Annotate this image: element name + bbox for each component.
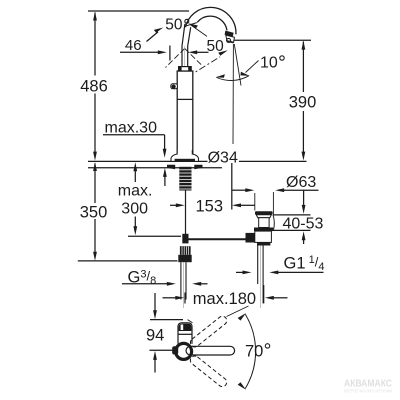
G3/8 left arrow right-pointing [167,282,176,286]
faucet vertical centerline [184,46,186,160]
10 deg angle arc [216,76,249,81]
10 deg arc arrow left [216,74,225,78]
dimension 350 line lower [94,219,96,256]
pop-up rod end knob [246,233,255,243]
pop-up waste body [255,231,272,242]
deck section right end cap [273,215,274,231]
40-53 lower arrow tail [303,239,305,244]
supply hose right line [185,262,187,299]
top view body cylinder [178,323,192,344]
leader line from joint to second 50 label [191,25,208,37]
94 top reference line [150,319,183,321]
dashed swivel arm lower [189,354,229,388]
G3/8 right arrow left-pointing [192,282,201,286]
swivel spout arm bar [186,346,235,355]
svg-text:max.180: max.180 [193,290,256,308]
degree circle of first 50 [185,19,189,23]
94 bottom reference line [150,349,176,351]
dimension 153 left arrow right-pointing [176,203,185,207]
svg-text:40-53: 40-53 [283,216,324,233]
dimension 153 right arrow left-pointing [232,203,241,207]
svg-text:350: 350 [80,203,108,221]
max.180 leader to swivel arm [227,306,249,317]
max.180 right tail [273,297,288,299]
watermark [344,379,392,394]
svg-text:46: 46 [125,37,142,54]
dimension 46 extension line [169,46,171,61]
dimension 350 line upper [94,164,96,204]
dimension max.300 upper arrow up [133,162,137,171]
handle axis arrow tip [218,50,228,55]
spout outer arc [185,7,236,34]
O63 right extension line [272,192,274,215]
max.180 left extension line [184,293,186,304]
dimension max.300 line upper [134,166,136,182]
dimension 350 arrow up [93,162,97,171]
leader arrow pointing at joint [188,23,198,28]
dimension max.180 left tail [163,297,177,299]
dimension max.300 line lower [134,217,136,231]
max.30 lower arrow tail [164,176,166,186]
max.300 bottom reference line [128,235,181,237]
svg-text:300: 300 [121,201,148,218]
max.180 right extension line [263,285,265,303]
70 deg arc arrow top [238,313,246,321]
40-53 arrow down [302,205,306,214]
spout inner arc [197,16,227,30]
leader line for 10 deg [246,61,259,73]
supply hose left line [180,262,182,299]
supply hose braid stripes [182,246,189,255]
degree circle of second 50 [227,38,231,42]
350 bottom reference line [78,260,178,262]
supply hose connector nut [178,255,191,262]
svg-text:94: 94 [146,327,164,345]
dimension 153 left tail [170,204,177,206]
O63 left arrow right-pointing [245,188,254,192]
svg-text:486: 486 [80,78,108,96]
O63 right arrow left-pointing [275,188,284,192]
supply hose centerline gray [182,262,184,308]
dimension 153 right tail [239,204,254,206]
O63 left arrow tail [232,189,247,191]
deck reference line B (deck underside) [88,167,222,169]
supply hose braid block [180,246,191,255]
G3/8 underline and left arrow tail [122,283,168,285]
spout left joint face [185,23,197,27]
svg-text:G1 1/4: G1 1/4 [284,254,325,273]
O63 left extension line [254,193,256,211]
40-53 bottom reference line [268,229,311,231]
mounting washer right [194,165,202,170]
handle swing dashed ray right [185,49,202,66]
dimension 46 arrow left-pointing [188,50,197,54]
pop-up rod junction block [182,234,188,244]
top view hose nub [172,346,178,354]
dimension 486 line lower [94,94,96,156]
G1 1/4 left arrow tail [236,271,244,273]
top view body cap notch [181,325,184,331]
dimension 486 arrow up [93,12,97,21]
dimension 94 lower tail [154,358,156,373]
max.180 left arrow right-pointing [175,296,184,300]
dimension 390 line lower [302,111,304,155]
base escutcheon [171,150,199,161]
10 deg arc arrow right [240,72,249,76]
pop-up waste bottom cap [257,242,270,245]
base escutcheon dark bar [175,159,195,162]
dimension 46 arrow right-pointing [158,50,167,54]
pop-up waste locknut [254,228,273,232]
70 deg arc arrow bottom [238,382,246,390]
max.30 leader drop line [164,135,166,150]
handle axis dash-dot line [188,57,221,77]
outlet vertical reference thin line [232,44,234,144]
outlet tip bottom edge [227,41,233,42]
spout neck left line [182,24,185,67]
G1 1/4 right arrow left-pointing [269,271,278,275]
svg-text:Ø63: Ø63 [286,174,316,191]
degree circle of 10 [280,56,284,60]
153 right extension line [231,163,233,210]
70 deg arc [245,314,255,388]
dimension 486 arrow down [93,152,97,161]
svg-text:Ø34: Ø34 [208,149,238,166]
degree circle of 70 [265,344,269,348]
aerator dark band [225,31,234,37]
O63 right arrow tail / underline [283,189,319,191]
dimension 94 arrow up [153,351,157,360]
faucet body outline [177,71,193,158]
spout neck right line [188,27,191,67]
leader arrow for first 50 deg [154,28,164,33]
outlet tip outline [226,35,235,42]
faucet body joint line [177,98,193,100]
dimension 350 arrow down [93,252,97,261]
390 top extension line [234,39,311,41]
max.180 right arrow left-pointing [265,296,274,300]
pop-up rod vertical [185,191,187,236]
dimension 94 upper line [154,293,156,312]
waste tailpipe left line [257,246,259,285]
waste tailpipe right line [262,246,264,304]
deck reference line A right segment (under O34 label to 390 dim) [239,160,307,162]
pop-up waste neck [259,218,269,228]
svg-text:153: 153 [196,198,224,216]
dimension 94 arrow down [153,310,157,319]
handle pin [171,84,178,89]
dimension 390 arrow up [302,41,306,50]
top view body dark cap band [179,324,192,331]
svg-text:max.: max. [118,183,153,200]
faucet top cap [179,67,192,71]
dashed swivel arm upper [189,314,229,348]
waste centerline gray [259,246,261,309]
dimension max.300 arrow down [133,226,137,235]
94 top reference end tick [188,320,193,323]
threaded shank [179,167,191,191]
pop-up waste flange skirt [256,215,271,218]
40-53 upper arrow line [303,190,305,206]
dimension 46 line right tail [196,51,209,53]
svg-text:390: 390 [289,94,317,112]
max.30 lower arrow up (below deck) [163,168,167,177]
svg-text:10: 10 [260,55,278,72]
svg-text:50: 50 [165,16,183,33]
svg-text:ИНТЕРНЕТ-МАГАЗИН САНТЕХНИКИ: ИНТЕРНЕТ-МАГАЗИН САНТЕХНИКИ [344,389,392,394]
max.30 underline [103,134,165,136]
mounting washer left [167,165,175,170]
svg-text:max.30: max.30 [105,120,158,137]
svg-text:70: 70 [245,343,263,361]
40-53 top reference line [273,214,311,216]
top view body inner line [178,333,192,335]
G1 1/4 left arrow right-pointing [243,271,252,275]
swivel pivot ring [176,343,192,359]
G3/8 right arrow tail [200,283,208,285]
pop-up rod horizontal [188,238,246,240]
handle pin ball [172,85,176,89]
handle swing dashed ray left [166,49,185,68]
deck reference line A left segment [88,160,208,162]
threaded shank thread lines [179,170,191,189]
wire top extension line (spout top height) [88,10,189,12]
dimension 46 line left [120,51,159,53]
outlet 10 deg tilted line [234,44,241,86]
dimension 486 line upper [94,13,96,76]
40-53 arrow up [302,231,306,240]
G1 1/4 right arrow tail / underline [277,271,324,273]
max.30 arrow down [163,149,167,158]
faucet top cap dark corners [179,67,192,71]
pop-up waste flange dark bar [255,211,273,214]
dimension 390 arrow down [302,152,306,161]
leader line for first 50 deg [147,32,159,42]
dimension 390 line upper [302,42,304,93]
